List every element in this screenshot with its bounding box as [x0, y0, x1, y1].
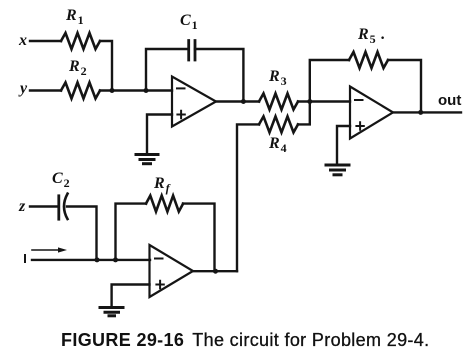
wire z input [30, 205, 58, 207]
op-amp U1 [172, 77, 216, 127]
resistor R5 [349, 52, 388, 68]
resistor R4 [259, 116, 298, 132]
wire Rf feedback left [116, 204, 147, 260]
label z [19, 198, 25, 216]
U1 minus sign [177, 87, 185, 89]
wire C1 feedback left [146, 49, 187, 91]
wire C2 to node D [67, 207, 97, 260]
ground G2 [326, 164, 349, 167]
resistor Rf [146, 196, 183, 212]
node A junction dot [110, 88, 115, 93]
current I arrow [32, 249, 62, 251]
op-amp U3 [150, 245, 194, 297]
label out [438, 92, 461, 109]
wire R3 to op-amp U2 inverting input [298, 100, 350, 102]
ground G3 [100, 306, 123, 309]
capacitor C2 [57, 196, 60, 219]
label R3 [269, 68, 287, 86]
wire U3 noninverting input to ground [112, 285, 150, 306]
label y [20, 80, 27, 98]
wire C1 feedback right [195, 49, 243, 102]
wire I input line [32, 259, 150, 261]
label R5 [358, 26, 385, 44]
label x [19, 32, 27, 50]
U3 minus sign [155, 258, 163, 260]
node E junction dot [113, 257, 118, 262]
label R2 [69, 58, 87, 76]
U1 output junction dot [241, 99, 246, 104]
wire Rf feedback right [183, 204, 215, 272]
wire R5 feedback right [388, 60, 421, 112]
label R4 [269, 135, 287, 153]
capacitor C1 [189, 41, 195, 61]
op-amp U2 [350, 87, 393, 139]
U2 minus sign [355, 99, 363, 101]
resistor R1 [61, 33, 100, 49]
label R1 [66, 7, 84, 25]
wire U1 output [216, 100, 259, 102]
node B junction dot [144, 88, 149, 93]
caption FIGURE 29-16 [61, 330, 429, 351]
node C junction dot [307, 99, 312, 104]
wire U2 noninverting input to ground [337, 126, 350, 163]
label C1 [180, 12, 198, 30]
out junction dot [418, 110, 423, 115]
ground G1 [136, 153, 158, 156]
resistor R3 [259, 94, 298, 110]
wire node A to op-amp U1 inverting input [100, 89, 172, 91]
U2 plus sign [356, 122, 363, 129]
wire y input [30, 89, 61, 91]
wire R5 feedback left [310, 60, 349, 102]
resistor R2 [61, 83, 100, 99]
wire U2 output to out [393, 111, 461, 113]
U1 plus sign [177, 111, 184, 118]
label I [24, 254, 26, 263]
label Rf [154, 175, 170, 193]
wire U1 noninverting input to ground [147, 115, 172, 153]
node D junction dot [95, 257, 100, 262]
wire x input [30, 40, 61, 42]
wire U3 output [193, 270, 237, 272]
wire R4 right to node C [298, 102, 310, 125]
wire R1 to node A [100, 41, 112, 91]
U3 plus sign [156, 281, 163, 288]
U3 output junction dot [213, 269, 218, 274]
wire R4 left leg from U3 output [237, 124, 259, 271]
label C2 [52, 170, 70, 188]
